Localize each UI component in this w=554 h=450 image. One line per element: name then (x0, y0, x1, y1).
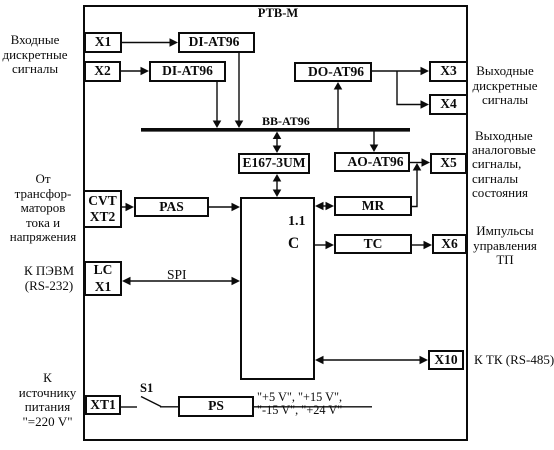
label От трансформаторов тока и напряжения (8, 172, 78, 245)
connector X2 (84, 61, 121, 82)
wire bus to AO-AT96 (373, 131, 375, 146)
label Выходные дискретные сигналы (469, 64, 541, 108)
wire bus to E167-3UM (bidirectional) (276, 137, 278, 147)
block MR (334, 196, 412, 216)
wire bus to DO-AT96 (337, 88, 339, 128)
wire E167-3UM to controller (bidirectional) (276, 179, 278, 191)
connector X6 (432, 234, 467, 254)
wire PS output to power rails (254, 406, 372, 408)
wire PAS to controller (209, 206, 232, 208)
label Выходные аналоговые сигналы, сигналы состояния (472, 129, 544, 200)
label S1 (switch name) (140, 381, 153, 396)
switch S1 blade (141, 397, 161, 407)
label К ТК (RS-485) (474, 352, 554, 368)
connector X5 (430, 153, 467, 174)
label BB-AT96 (bus name) (262, 114, 310, 129)
wire TC to X6 (412, 244, 424, 246)
connector CVT XT2 (83, 190, 122, 228)
wire DO-AT96 to X3 (372, 70, 421, 72)
wire DI-AT96 upper to bus (238, 53, 240, 122)
block TC (334, 234, 412, 254)
block controller 1.1 C (240, 197, 315, 380)
block DI-AT96 (lower) (149, 61, 226, 82)
connector X1 (84, 32, 122, 53)
wire X2 to DI-AT96 lower (121, 70, 142, 72)
wire DI-AT96 lower to bus (216, 81, 218, 122)
block DO-AT96 (294, 62, 372, 82)
block E167-3UM (238, 153, 310, 174)
block PS (178, 396, 254, 417)
wire XT1 to switch (121, 406, 137, 408)
connector X3 (429, 61, 468, 82)
wire CVT to PAS (122, 206, 127, 208)
label К источнику питания =220 V (12, 371, 83, 429)
label power rails -15V +24V (257, 403, 342, 418)
wire controller to MR (bidirectional) (321, 205, 328, 207)
label РТВ-М (248, 6, 308, 21)
label SPI (167, 267, 187, 283)
connector XT1 (85, 395, 121, 415)
wire MR to AO/X5 line (412, 170, 417, 207)
label power rails +5V +15V (257, 390, 342, 405)
wire SPI between LC and controller (bidirectional) (129, 280, 233, 282)
wire controller to TC (315, 244, 326, 246)
label Импульсы управления ТП (470, 224, 540, 268)
label К ПЭВМ (RS-232) (14, 264, 84, 293)
block DI-AT96 (upper) (178, 32, 255, 53)
wire AO-AT96 to X5 (410, 162, 422, 164)
block AO-AT96 (334, 152, 410, 172)
wire X1 to DI-AT96 upper (122, 42, 171, 44)
wire controller to X10 (bidirectional) (321, 359, 421, 361)
label 1.1 (288, 214, 306, 230)
label Входные дискретные сигналы (0, 33, 70, 77)
connector LC X1 (84, 261, 122, 296)
wire branch DO-AT96 to X4 (397, 71, 421, 105)
label C (288, 235, 299, 253)
connector X4 (429, 94, 468, 115)
connector X10 (428, 350, 464, 370)
wire switch to PS (160, 406, 178, 408)
frame: outer border of РТВ-М unit (83, 5, 468, 441)
block PAS (134, 197, 209, 217)
bus BB-AT96 (141, 128, 410, 132)
